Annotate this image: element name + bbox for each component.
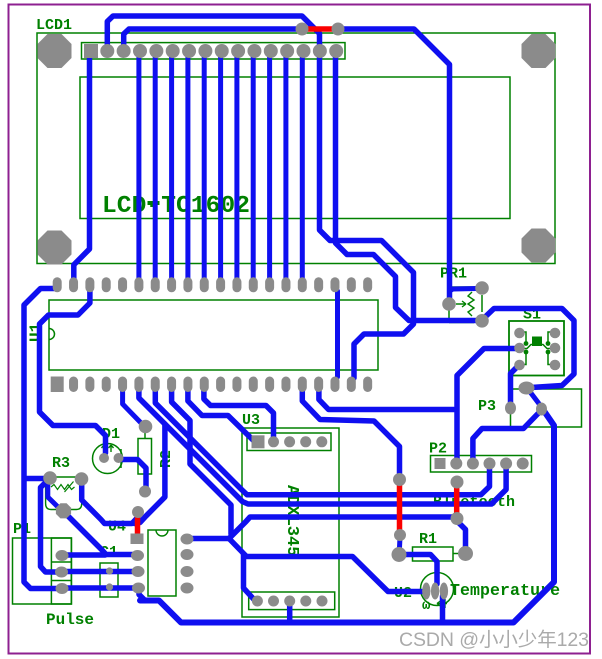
svg-text:U3: U3 bbox=[242, 412, 260, 429]
LCD1 module outline bbox=[37, 33, 555, 264]
U1 top row pads bbox=[53, 277, 62, 292]
R3 pads bbox=[43, 471, 57, 485]
S1 pads bbox=[514, 328, 525, 339]
red jumper R1 bbox=[397, 483, 403, 532]
wire branch to via PR1 top-right bbox=[450, 289, 478, 292]
wire R1 left pad to U2 center bbox=[401, 555, 437, 585]
wire PR1 via3 loop to S1 and P3 via bbox=[484, 309, 574, 388]
R2 pads bbox=[139, 420, 153, 434]
LCD viewport outline bbox=[80, 77, 510, 219]
wire Y down crossing 4 to U2 left pad bbox=[229, 539, 423, 592]
svg-text:LCD-TC1602: LCD-TC1602 bbox=[102, 193, 250, 220]
D1 pads bbox=[99, 453, 109, 463]
wire R3 pad1 to P1 pin2 bbox=[41, 481, 58, 572]
svg-text:ω: ω bbox=[422, 598, 431, 614]
wire P3 via link bbox=[529, 391, 540, 406]
wire red via to R1 right pad bbox=[457, 521, 466, 550]
wire U1 pad1t to P1 pin3 left rail bbox=[24, 289, 58, 589]
LCD header pads bbox=[100, 44, 114, 58]
PR1 pads bbox=[442, 297, 456, 311]
wire U1 pad17b to P2 vertical bbox=[319, 386, 454, 410]
wire red via to R1 left pad bbox=[397, 537, 403, 552]
wire P2 pin3 to P3 via bbox=[473, 411, 541, 461]
U4 right pads bbox=[181, 534, 194, 545]
wire U1 pad18t to pad18b bbox=[335, 291, 340, 377]
wire R3 pad2 to U4 via bbox=[82, 481, 138, 524]
wire S1 bottom pad to P3 via bbox=[511, 367, 518, 405]
R1 pads and vias bbox=[393, 473, 406, 486]
red jumper Bluetooth bbox=[454, 485, 460, 515]
wire U4 pad1R junction Y bbox=[189, 536, 229, 542]
wire LCD pin2 to LCD pin15 top route bbox=[107, 16, 413, 378]
wire U1 pad5b to R2 top via bbox=[123, 386, 143, 425]
wire U1 pad16b to red via bbox=[302, 386, 399, 476]
resistor R2 outline bbox=[138, 439, 152, 475]
wire via to contrast vertical bbox=[343, 29, 450, 298]
U3 header pads bbox=[252, 435, 265, 448]
U4 via bbox=[132, 506, 144, 518]
wire Y up to ADXL crossing 3 and red via 2 bbox=[229, 517, 452, 539]
U1 bottom row pads bbox=[51, 377, 64, 393]
LCD1 pin header outline bbox=[82, 43, 346, 59]
wire branch to R3 pad1 bbox=[25, 476, 47, 482]
wire P1 pin2 to C1 to U4 bbox=[64, 569, 134, 575]
wire U1 pad9b to U3 pin1 bbox=[188, 386, 258, 442]
wire U2 right pad down bbox=[440, 596, 446, 620]
supply octagon via bbox=[56, 503, 71, 518]
wire LCD pin16 to PR1 bottom via bbox=[336, 48, 478, 321]
red jumper top near LCD bbox=[305, 26, 335, 32]
U2 pads bbox=[422, 583, 430, 600]
LCD pin1 pad bbox=[84, 44, 98, 58]
wire ADXL bottom pad3 down bbox=[287, 604, 293, 620]
wire P1 pin3 to C1 to U4 bbox=[65, 585, 135, 591]
wire ADXL crossing 2 U1 pad6b to P2 pin5 bbox=[139, 386, 506, 504]
wires LCD data lines to U1 top row bbox=[136, 50, 141, 281]
Bluetooth vias bbox=[451, 476, 464, 489]
wire U1 pad10b to U3 pin2 bbox=[204, 386, 274, 437]
wire U1 pad3t to D1 anode bbox=[40, 291, 106, 453]
svg-text:R1: R1 bbox=[419, 531, 437, 548]
P3 pads bbox=[519, 382, 535, 395]
wire U1 pad8b diagonal to Y junction bbox=[172, 386, 231, 534]
svg-text:Pulse: Pulse bbox=[46, 611, 94, 629]
svg-text:CSDN @小小少年123: CSDN @小小少年123 bbox=[399, 629, 589, 651]
C1 pads bbox=[106, 567, 113, 574]
wire U4 pad to bottom rail bbox=[139, 589, 145, 601]
wire R3 pad1 to octagon via bbox=[48, 482, 62, 510]
wire ADXL crossing 1 U1 pad7b to P2 pin4 bbox=[155, 386, 489, 495]
wire LCD pin1 to U1 pad2t bbox=[74, 51, 91, 282]
wire branch to supply octagon via bbox=[135, 424, 165, 524]
U3 bottom pads bbox=[252, 596, 263, 607]
red jumper U4 bbox=[135, 514, 141, 536]
svg-text:LCD1: LCD1 bbox=[36, 17, 72, 34]
svg-text:U1: U1 bbox=[27, 323, 45, 342]
wire Y branch to ADXL bottom pad1 bbox=[244, 554, 258, 601]
P2 pads bbox=[435, 458, 446, 469]
IC U1 outline bbox=[49, 300, 378, 370]
wire octagon via to U4 supply bbox=[66, 514, 134, 555]
wire D1 cathode to R2 bottom bbox=[121, 460, 146, 488]
wire P1 pin1 horizontal bbox=[64, 552, 105, 558]
svg-text:R3: R3 bbox=[52, 455, 70, 472]
wire S1 mid pad to P2 pin2 bbox=[457, 349, 518, 462]
wire P3 via to bottom rail bbox=[140, 410, 554, 623]
U4 left pads bbox=[131, 534, 144, 545]
wire LCD pin3 to via bbox=[124, 29, 297, 48]
P1 pads bbox=[56, 550, 69, 561]
svg-text:P3: P3 bbox=[478, 398, 496, 415]
top vias bbox=[296, 23, 309, 36]
LCD mounting holes bbox=[38, 34, 72, 68]
svg-text:PR1: PR1 bbox=[440, 266, 467, 283]
